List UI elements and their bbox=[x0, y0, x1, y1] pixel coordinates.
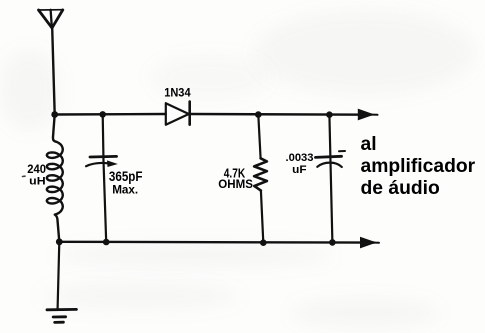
node E bbox=[56, 238, 63, 245]
ground bbox=[47, 309, 76, 322]
svg-text:uH: uH bbox=[29, 176, 45, 188]
wire var-cap branch top bbox=[103, 114, 107, 242]
wire top rail left segment bbox=[55, 113, 166, 116]
svg-text:240: 240 bbox=[27, 163, 46, 176]
resistor R1 4.7K bbox=[254, 158, 267, 190]
node A bbox=[51, 111, 58, 118]
antenna bbox=[38, 10, 62, 28]
node C bbox=[255, 111, 262, 118]
svg-text:Max.: Max. bbox=[112, 183, 138, 197]
svg-text:.0033: .0033 bbox=[286, 152, 314, 164]
capacitor C2 .0033uF bbox=[316, 151, 346, 167]
caption: al amplificador de audio bbox=[361, 134, 476, 199]
wire cap branch top bbox=[329, 115, 332, 243]
svg-text:uF: uF bbox=[292, 164, 307, 176]
wire to ground bbox=[58, 242, 60, 309]
wire resistor branch bottom bbox=[261, 191, 263, 243]
stray mark bbox=[23, 175, 26, 177]
node H bbox=[329, 239, 336, 246]
svg-text:1N34: 1N34 bbox=[164, 86, 191, 100]
node F bbox=[103, 239, 110, 246]
svg-text:OHMS: OHMS bbox=[218, 177, 253, 191]
arrow head bottom output bbox=[360, 237, 377, 249]
diode D1 1N34 bbox=[166, 102, 190, 125]
wire resistor branch top bbox=[258, 115, 260, 159]
wire top rail right segment bbox=[190, 113, 371, 116]
inductor L1 240uH bbox=[47, 115, 63, 242]
wire bottom rail bbox=[59, 241, 374, 244]
node G bbox=[260, 239, 267, 246]
arrow head top output bbox=[358, 109, 375, 121]
node B bbox=[99, 111, 106, 118]
variable capacitor C1 plates bbox=[86, 156, 118, 167]
node D bbox=[326, 111, 333, 118]
wire antenna to node A bbox=[52, 28, 55, 115]
